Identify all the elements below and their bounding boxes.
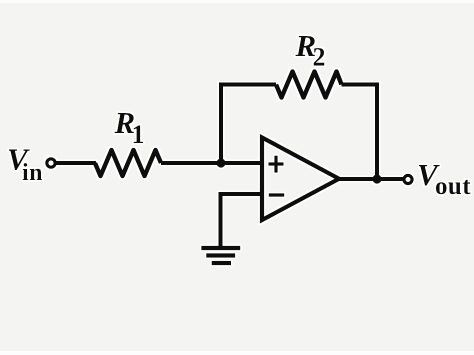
svg-text:out: out [435, 173, 471, 200]
label Vin [7, 142, 43, 187]
wire: R1 through node A to op-amp noninverting input [161, 161, 262, 165]
svg-text:1: 1 [132, 120, 145, 149]
wire: op-amp output to Vout terminal [338, 177, 405, 181]
label R2 [295, 28, 326, 72]
svg-text:in: in [22, 160, 43, 186]
input terminal Vin [47, 159, 55, 167]
wire: feedback top right, R2 down to output node B [342, 85, 378, 180]
node B junction at output [372, 174, 381, 183]
output terminal Vout [404, 175, 412, 183]
wire: feedback left vertical, node A up to R2 [221, 85, 276, 164]
resistor R2 [276, 72, 342, 98]
node A junction at noninverting input [216, 158, 225, 167]
op-amp U1 [262, 138, 339, 221]
svg-text:2: 2 [313, 43, 326, 72]
ground [201, 246, 240, 265]
label R1 [114, 105, 145, 149]
op-amp minus sign [269, 193, 285, 196]
resistor R1 [95, 150, 161, 176]
wire: op-amp inverting input down to ground [221, 194, 263, 246]
label Vout [417, 157, 471, 200]
wire: Vin terminal to resistor R1 [55, 161, 96, 165]
op-amp plus sign [269, 156, 284, 173]
